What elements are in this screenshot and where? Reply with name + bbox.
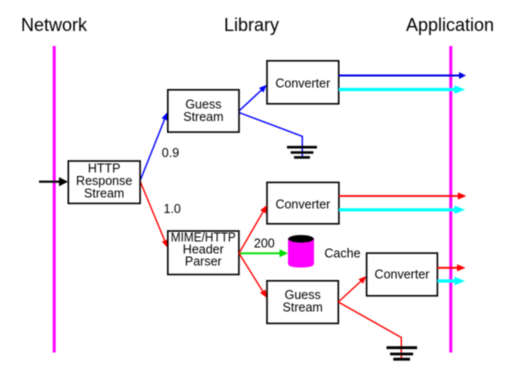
svg-text:Application: Application: [406, 15, 494, 35]
box Converter bottom: [367, 253, 438, 296]
wire red guess-to-ground: [338, 302, 401, 359]
wire converter-top cyan output: [339, 85, 465, 93]
svg-text:Stream: Stream: [283, 300, 323, 314]
wire blue guess-to-ground: [239, 113, 302, 159]
box Converter top: [267, 61, 339, 104]
svg-text:Converter: Converter: [275, 77, 330, 91]
svg-text:Parser: Parser: [185, 254, 222, 268]
wire input arrow: [39, 177, 68, 186]
wire green 200 cache arrow: [239, 249, 288, 257]
svg-text:Library: Library: [224, 15, 279, 35]
box Converter middle: [267, 182, 339, 223]
ground top: [287, 147, 317, 157]
wire red guess-to-converter bottom: [338, 276, 366, 302]
svg-text:0.9: 0.9: [162, 146, 179, 160]
svg-text:Stream: Stream: [84, 187, 124, 201]
component cache cylinder: [288, 235, 314, 268]
wire converter-bottom red output: [437, 264, 465, 271]
ground bottom: [387, 348, 418, 360]
wire red parser-to-guess: [239, 253, 267, 298]
svg-text:Converter: Converter: [375, 267, 430, 281]
wire application boundary line: [449, 46, 452, 353]
box MIME/HTTP Header Parser: [168, 230, 239, 274]
wire blue 0.9 branch: [140, 112, 168, 181]
svg-text:200: 200: [254, 237, 275, 251]
svg-text:1.0: 1.0: [164, 202, 181, 216]
wire red parser-to-converter: [239, 205, 267, 253]
wire network boundary line: [53, 46, 56, 353]
box Guess Stream bottom: [267, 281, 338, 324]
wire converter-bottom cyan output: [437, 277, 465, 285]
svg-text:Cache: Cache: [324, 247, 360, 261]
wire converter-middle red output: [339, 192, 466, 199]
wire blue guess-to-converter: [239, 85, 267, 111]
svg-text:Converter: Converter: [275, 197, 330, 211]
box HTTP Response Stream: [68, 161, 140, 203]
wire converter-top blue output: [339, 72, 466, 79]
wire converter-middle cyan output: [339, 206, 465, 214]
svg-text:Stream: Stream: [183, 110, 223, 124]
svg-text:Network: Network: [21, 15, 88, 35]
wire red 1.0 branch: [140, 181, 168, 248]
box Guess Stream top: [168, 90, 239, 132]
